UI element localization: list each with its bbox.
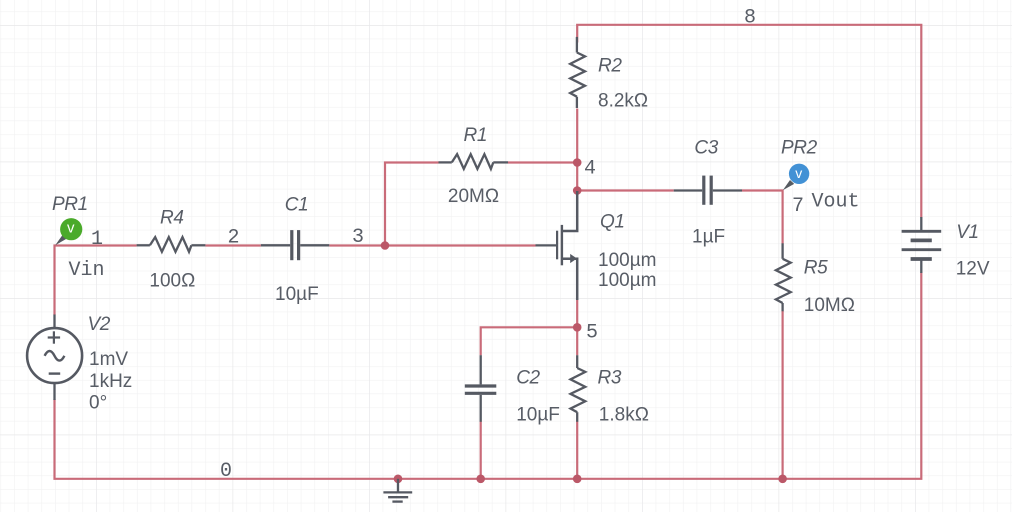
junction node 5 [573,323,582,332]
junction C2 bottom [476,475,485,484]
resistor R1 [439,154,509,169]
svg-text:C3: C3 [694,137,718,158]
wire net 5 source column [576,300,578,356]
svg-text:R5: R5 [804,258,828,279]
capacitor C1 [261,230,329,260]
svg-text:1mV: 1mV [89,349,128,370]
wire net 1 [55,246,137,316]
svg-text:7: 7 [792,195,804,218]
svg-text:3: 3 [352,226,364,249]
svg-text:12V: 12V [956,258,990,279]
svg-text:5: 5 [586,322,598,345]
wire net 4 to C3 [577,189,674,191]
svg-text:4: 4 [584,157,596,180]
svg-text:100µm: 100µm [598,270,656,291]
svg-text:Q1: Q1 [600,212,625,233]
svg-text:100Ω: 100Ω [149,271,195,292]
svg-text:1.8kΩ: 1.8kΩ [599,405,649,426]
svg-text:C1: C1 [285,195,309,216]
svg-text:R4: R4 [160,207,184,228]
svg-text:1: 1 [91,228,103,251]
svg-text:V1: V1 [956,222,978,243]
svg-text:v: v [67,220,75,237]
transistor Q1 [536,191,578,300]
resistor R5 [776,243,791,311]
wire net 0 R3 bottom [576,422,578,479]
svg-text:R2: R2 [598,55,622,76]
resistor R2 [570,37,585,108]
wire net 2 [205,244,261,246]
svg-text:0°: 0° [89,393,107,414]
resistor R4 [137,237,206,252]
svg-text:PR1: PR1 [52,194,88,215]
wire net 0 ground rail [55,273,922,479]
battery V1 [902,217,942,273]
svg-text:100µm: 100µm [598,250,656,271]
wire net 3 vertical [385,163,439,246]
wire net 5 to C2 [481,327,578,355]
junction R3 bottom [573,475,582,484]
svg-text:R1: R1 [464,125,488,146]
svg-text:10µF: 10µF [275,284,319,305]
wire net 7 C3 to R5 [742,191,783,244]
svg-text:C2: C2 [516,368,540,389]
junction node 3 [381,241,390,250]
wire net 3 gate [329,244,535,246]
svg-text:1kHz: 1kHz [89,371,132,392]
svg-text:1µF: 1µF [692,227,725,248]
wire net 8 top rail [577,25,921,218]
svg-text:20MΩ: 20MΩ [448,186,499,207]
wire net 0 R5 bottom [781,311,783,479]
capacitor C2 [465,355,497,422]
ground [383,479,412,502]
svg-text:10µF: 10µF [516,405,560,426]
svg-text:Vout: Vout [812,191,860,214]
junction ground symbol [394,475,403,484]
junction drain [573,186,582,195]
svg-text:v: v [795,165,802,181]
resistor R3 [571,355,586,422]
wire net 0 C2 bottom [480,422,482,479]
svg-text:PR2: PR2 [781,137,818,158]
probe PR2 [783,164,810,191]
junction node 4 [573,158,582,167]
svg-text:8: 8 [744,6,756,29]
svg-text:0: 0 [220,460,232,483]
svg-text:R3: R3 [598,368,622,389]
svg-text:2: 2 [228,227,240,250]
junction R5 bottom [778,475,787,484]
source V2 [27,315,82,401]
capacitor C3 [674,176,742,205]
probe PR1 [55,218,82,245]
svg-text:8.2kΩ: 8.2kΩ [598,90,648,111]
wire net 4 R1 to drain [508,161,577,163]
wire net 4 vertical [576,109,578,191]
svg-text:10MΩ: 10MΩ [804,295,855,316]
svg-text:Vin: Vin [69,259,105,282]
svg-text:V2: V2 [88,314,111,335]
